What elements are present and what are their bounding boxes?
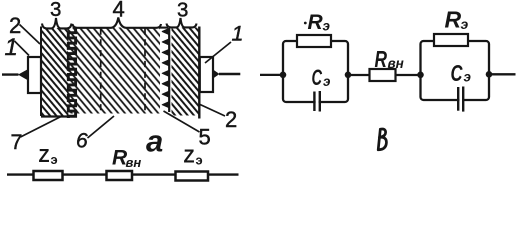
svg-text:вн: вн xyxy=(388,56,404,71)
svg-text:R: R xyxy=(308,11,324,34)
svg-text:R: R xyxy=(375,46,388,72)
svg-text:э: э xyxy=(323,74,331,89)
svg-text:5: 5 xyxy=(199,125,211,150)
svg-text:э: э xyxy=(464,70,472,85)
resistor Rvn box xyxy=(107,171,133,180)
svg-text:вн: вн xyxy=(126,155,142,170)
top brace 1 (under label 3) xyxy=(42,18,72,28)
svg-text:3: 3 xyxy=(177,0,188,22)
svg-text:1: 1 xyxy=(232,22,244,46)
left electrode 1 xyxy=(28,57,41,93)
svg-text:э: э xyxy=(51,152,58,167)
svg-text:Z: Z xyxy=(39,146,50,166)
svg-text:4: 4 xyxy=(113,0,125,22)
hatch region middle bulk (layer 4/6) xyxy=(67,28,160,114)
dashed grain boundary line left xyxy=(100,29,102,114)
right electrode 1 xyxy=(200,57,213,92)
wire Rvn to loop2 xyxy=(396,74,421,76)
capacitor C1 plates xyxy=(313,92,315,112)
wire xyxy=(7,173,239,175)
leader for label 2 bottom-right xyxy=(199,104,225,116)
serrated barrier layer 5 (zigzag teeth) xyxy=(162,29,169,108)
resistor Z2 box xyxy=(176,172,209,181)
svg-text:C: C xyxy=(451,60,464,86)
svg-text:Z: Z xyxy=(184,147,195,167)
exit wire xyxy=(489,73,516,75)
svg-text:э: э xyxy=(461,16,469,32)
top brace 2 (under label 4) xyxy=(73,18,162,28)
svg-text:3: 3 xyxy=(50,0,61,21)
svg-text:C: C xyxy=(312,65,323,90)
top brace 3 (under label 3 right) xyxy=(167,18,197,27)
leader for label 5 xyxy=(164,111,200,132)
resistor Rvn box xyxy=(370,69,396,81)
svg-text:7: 7 xyxy=(11,130,23,154)
capacitor C1 gap xyxy=(316,95,319,109)
block right edge xyxy=(198,27,200,119)
junction dot right of loop1 xyxy=(345,72,352,79)
leader for label 1 top-right xyxy=(205,42,231,63)
svg-text:1: 1 xyxy=(5,34,18,61)
svg-text:6: 6 xyxy=(76,130,88,153)
resistor Z1 box xyxy=(34,171,63,180)
hatch region dense right band (layer 2) xyxy=(172,28,199,116)
leader for label 6 xyxy=(88,116,115,138)
block bottom edge segment xyxy=(41,115,70,117)
junction dot right of loop2 xyxy=(486,71,493,78)
RC loop 2 xyxy=(421,41,490,100)
leader for label 7 xyxy=(21,116,63,137)
capacitor C2 gap xyxy=(459,93,462,107)
leader for label 2 top-left xyxy=(20,25,41,45)
serrated barrier layer 7 (castellated teeth) xyxy=(68,28,75,119)
svg-text:э: э xyxy=(196,153,203,168)
svg-text:2: 2 xyxy=(225,107,237,132)
hatch region dense left band (layer 2) xyxy=(42,28,69,116)
leader for label 1 top-left xyxy=(15,41,30,56)
top edge gap over barrier 5 xyxy=(159,27,168,29)
subfigure label v xyxy=(378,129,386,150)
resistor R2 box xyxy=(434,34,468,46)
speck before R1 label xyxy=(304,22,307,25)
block left edge xyxy=(40,27,42,117)
left contact blob xyxy=(18,69,28,80)
junction dot left of loop1 xyxy=(280,72,287,79)
entry wire xyxy=(260,74,283,76)
right contact blob xyxy=(213,70,220,79)
capacitor C2 plates xyxy=(457,87,459,111)
resistor R1 box xyxy=(297,35,331,47)
junction dot left of loop2 xyxy=(417,72,424,79)
svg-text:R: R xyxy=(445,7,462,33)
dashed grain boundary line right xyxy=(144,29,146,113)
svg-text:э: э xyxy=(323,19,331,34)
wire loop1 to Rvn xyxy=(348,74,370,76)
RC loop 1 xyxy=(283,41,348,102)
left lead wire xyxy=(2,73,19,75)
svg-text:а: а xyxy=(146,124,163,159)
right lead wire xyxy=(219,73,240,75)
